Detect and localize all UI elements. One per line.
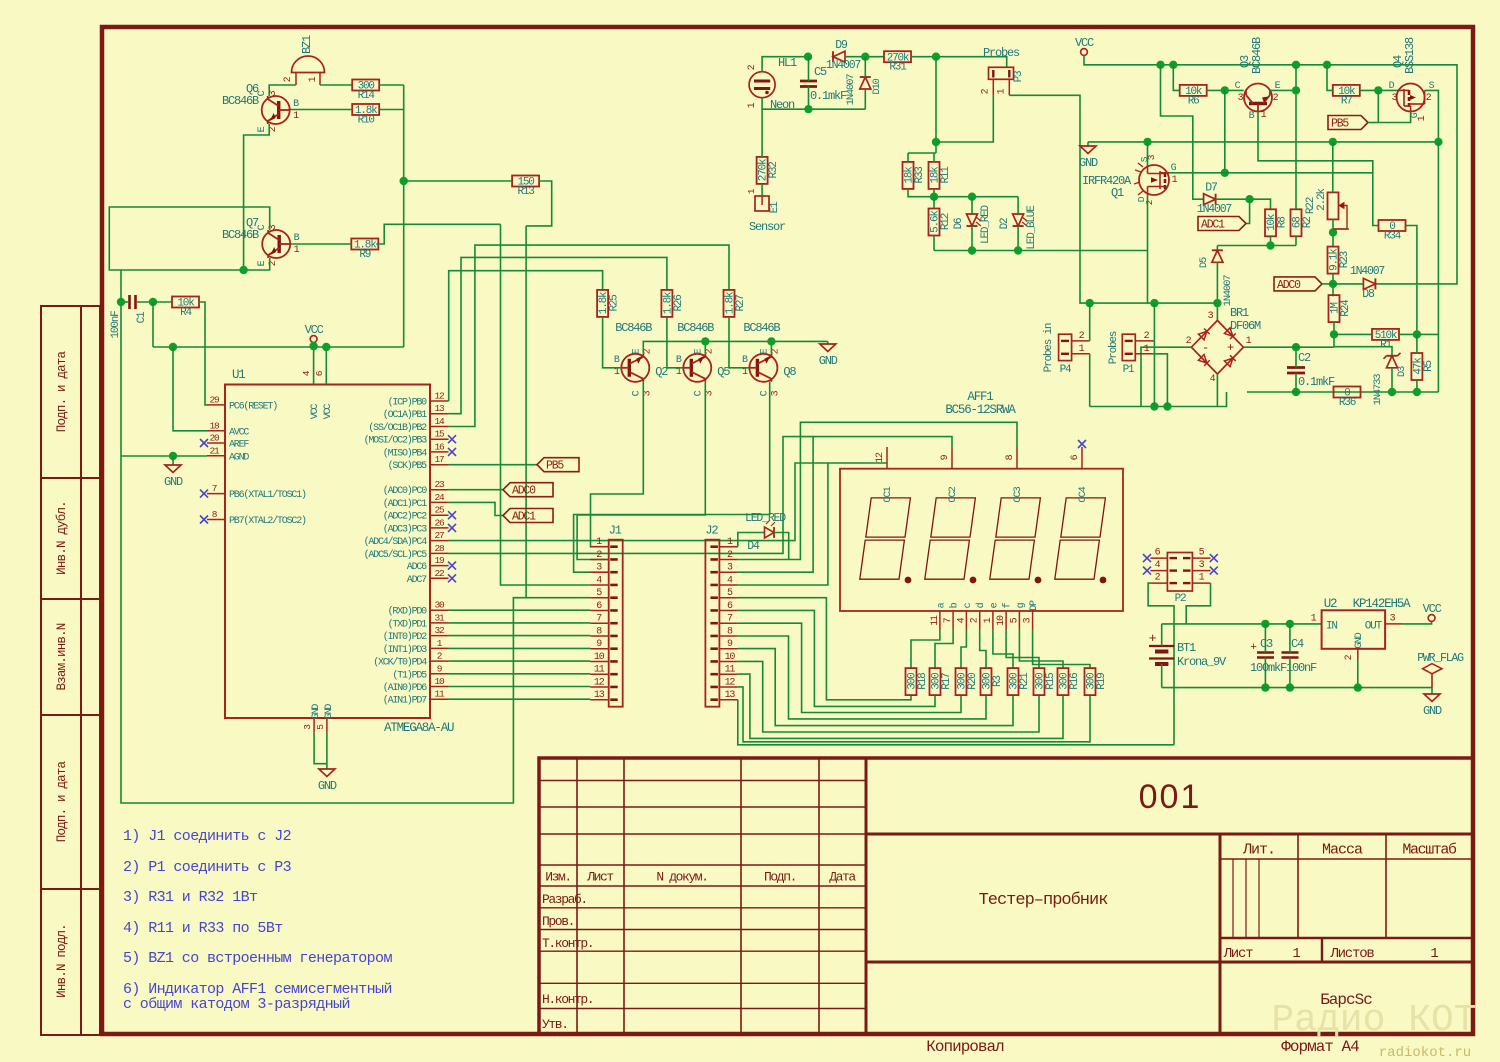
svg-text:N докум.: N докум. [656, 870, 707, 885]
svg-text:12: 12 [434, 391, 445, 402]
wire [137, 301, 172, 303]
no-connect AREF [200, 439, 208, 447]
global label ADC1 right [1198, 217, 1246, 231]
svg-text:R24: R24 [1340, 299, 1352, 317]
wire [738, 661, 1039, 732]
wire [501, 224, 591, 585]
resistor R1 [1372, 329, 1399, 352]
svg-text:R1: R1 [1380, 339, 1392, 351]
wire [313, 346, 315, 384]
connector P2 [1167, 553, 1192, 592]
svg-text:BC846B: BC846B [1250, 37, 1264, 74]
svg-text:C4: C4 [1291, 637, 1304, 651]
wire [738, 649, 1013, 726]
svg-text:HL1: HL1 [778, 56, 797, 70]
pin 7 PB6(XTAL1/TOSC1) [207, 493, 225, 495]
svg-text:Лист: Лист [586, 870, 613, 885]
resistor R3 [981, 668, 1005, 695]
svg-text:Дата: Дата [829, 870, 856, 885]
svg-text:11: 11 [725, 665, 736, 676]
no-connect [448, 448, 456, 456]
wire [313, 342, 315, 346]
resistor R14 [352, 80, 379, 103]
wire [1322, 283, 1333, 285]
junction [1330, 330, 1338, 338]
svg-text:R3: R3 [992, 676, 1004, 687]
resistor R31 [884, 51, 911, 73]
wire [1431, 688, 1433, 694]
svg-text:R26: R26 [673, 295, 685, 312]
svg-text:DP: DP [1029, 600, 1040, 611]
resistor R9 [351, 239, 378, 262]
power VCC at U2 [1428, 615, 1435, 622]
wire [526, 226, 590, 598]
svg-text:CC4: CC4 [1077, 486, 1089, 502]
wire [1373, 174, 1379, 225]
svg-text:U1: U1 [232, 368, 245, 382]
svg-text:Лит.: Лит. [1242, 842, 1275, 859]
wire [526, 181, 552, 226]
svg-text:10: 10 [725, 652, 736, 663]
svg-text:17: 17 [434, 454, 444, 465]
svg-text:Подп. и дата: Подп. и дата [55, 760, 69, 842]
wire [449, 647, 591, 649]
svg-text:Пров.: Пров. [542, 914, 574, 929]
svg-text:LED_BLUE: LED_BLUE [1026, 205, 1038, 250]
svg-text:20: 20 [209, 433, 220, 444]
svg-text:R7: R7 [1341, 95, 1352, 107]
wire [1295, 236, 1297, 245]
wire [1295, 65, 1297, 210]
resistor R21 [1008, 668, 1032, 695]
svg-text:1N4007: 1N4007 [1197, 203, 1232, 216]
svg-text:CC3: CC3 [1012, 486, 1024, 502]
svg-text:Тестер–пробник: Тестер–пробник [979, 891, 1109, 910]
wire [1295, 373, 1297, 392]
svg-text:(INT0)PD2: (INT0)PD2 [383, 631, 427, 643]
wire [449, 464, 537, 466]
svg-text:25: 25 [434, 505, 445, 516]
display AFF1 BC56-12SRWA [840, 469, 1123, 611]
potentiometer R22 [1328, 192, 1348, 232]
svg-text:VCC: VCC [1423, 602, 1442, 616]
svg-text:J1: J1 [609, 524, 622, 538]
svg-text:+: + [1227, 341, 1234, 355]
wire [667, 317, 683, 368]
pin 12 CC1 [886, 447, 888, 469]
svg-text:(XCK/T0)PD4: (XCK/T0)PD4 [373, 657, 427, 669]
wire [738, 700, 1174, 745]
svg-text:ADC0: ADC0 [512, 485, 536, 498]
wire [403, 85, 405, 347]
svg-text:VCC: VCC [323, 404, 334, 420]
resistor R18 [906, 668, 930, 695]
wire [1270, 236, 1272, 245]
svg-text:0.1mkF: 0.1mkF [810, 89, 847, 103]
junction [701, 337, 709, 345]
wire [1332, 274, 1334, 297]
svg-text:R13: R13 [517, 186, 534, 198]
wire [1437, 142, 1439, 392]
svg-text:IRFR420A: IRFR420A [1082, 174, 1132, 188]
wire [1378, 112, 1410, 123]
svg-text:Подп.: Подп. [764, 870, 796, 885]
junction [239, 266, 247, 274]
svg-text:23: 23 [434, 479, 445, 490]
svg-text:10: 10 [434, 676, 445, 687]
wire [574, 382, 770, 572]
wire [864, 57, 866, 77]
svg-text:P2: P2 [1175, 593, 1186, 605]
resistor R33 [903, 162, 927, 189]
wire [808, 87, 810, 110]
svg-text:Krona_9V: Krona_9V [1177, 655, 1227, 669]
capacitor C3 100mkF [1257, 653, 1274, 658]
wire [1270, 89, 1296, 91]
wire [1224, 90, 1226, 172]
no-connect P2 pin3 [1210, 567, 1218, 575]
svg-text:1: 1 [1292, 946, 1300, 962]
transistor Q3 [1244, 84, 1272, 112]
wire [1425, 90, 1439, 141]
svg-text:GND: GND [318, 779, 337, 793]
wire [449, 686, 591, 688]
resistor R16 [1058, 668, 1082, 695]
svg-text:18: 18 [209, 420, 220, 431]
junction [930, 193, 938, 201]
svg-text:Масштаб: Масштаб [1402, 842, 1457, 859]
svg-text:16: 16 [434, 441, 445, 452]
junction [1388, 388, 1396, 396]
svg-text:ADC0: ADC0 [1277, 279, 1301, 292]
wire [291, 243, 352, 245]
svg-text:BC846B: BC846B [222, 94, 259, 108]
wire [1019, 629, 1063, 668]
wire [643, 341, 828, 353]
svg-text:3) R31 и R32 1Вт: 3) R31 и R32 1Вт [123, 889, 258, 906]
wire [152, 302, 154, 347]
junction [169, 343, 177, 351]
svg-text:D6: D6 [953, 218, 965, 229]
wire [1247, 391, 1438, 393]
capacitor C2 [1287, 368, 1305, 374]
wire [934, 153, 936, 162]
resistor R32 [757, 157, 781, 184]
wire [120, 270, 122, 456]
transistor Q4 BSS138 [1397, 84, 1425, 112]
wire [449, 609, 591, 611]
wire [173, 347, 207, 431]
pin 14 (SS/OC1B)PB2 [430, 426, 449, 428]
pin 18 AVCC [207, 430, 225, 432]
wire [761, 109, 763, 157]
wire [269, 258, 271, 270]
svg-text:BC846B: BC846B [743, 321, 780, 335]
svg-text:LED_RED: LED_RED [980, 204, 992, 243]
svg-text:27: 27 [434, 530, 444, 541]
svg-text:11: 11 [930, 615, 941, 626]
svg-text:+: + [1250, 642, 1256, 654]
svg-text:R5: R5 [1423, 361, 1435, 372]
wire [774, 533, 789, 560]
pin 5 GND [326, 718, 328, 733]
svg-text:(ADC3)PC3: (ADC3)PC3 [383, 523, 427, 535]
svg-text:PB6(XTAL1/TOSC1): PB6(XTAL1/TOSC1) [229, 489, 306, 501]
svg-text:R12: R12 [940, 213, 952, 230]
svg-text:R18: R18 [917, 673, 929, 690]
junction [149, 298, 157, 306]
wire [1216, 374, 1218, 407]
power VCC right [1081, 49, 1088, 56]
svg-text:BSS138: BSS138 [1403, 37, 1417, 74]
wire [577, 382, 705, 560]
svg-text:Probes: Probes [1108, 331, 1120, 364]
wire [449, 489, 503, 491]
svg-text:R36: R36 [1339, 397, 1356, 409]
svg-text:D8: D8 [1362, 288, 1375, 301]
wire [1243, 346, 1334, 348]
svg-text:radiokot.ru: radiokot.ru [1379, 1045, 1471, 1061]
resistor R24 [1329, 295, 1353, 322]
pin 9 CC2 [951, 447, 953, 469]
wire [314, 733, 327, 764]
svg-text:R16: R16 [1069, 673, 1081, 690]
wire [1216, 262, 1218, 320]
junction [968, 193, 976, 201]
wire [1087, 142, 1089, 146]
svg-text:C3: C3 [1260, 637, 1273, 651]
svg-text:D3: D3 [1396, 366, 1408, 377]
wire [738, 636, 986, 719]
svg-text:ADC1: ADC1 [512, 511, 536, 524]
digit 3 [990, 498, 1041, 579]
wire [1162, 687, 1432, 689]
svg-text:Лист: Лист [1223, 946, 1254, 962]
junction [117, 298, 125, 306]
wire [961, 629, 966, 668]
wire [449, 673, 591, 675]
svg-text:PWR_FLAG: PWR_FLAG [1417, 652, 1464, 665]
pin 6 CC4 [1081, 447, 1083, 469]
wire [738, 610, 935, 706]
junction [1156, 61, 1164, 69]
wire [379, 109, 404, 111]
svg-text:(ADC5/SCL)PC5: (ADC5/SCL)PC5 [364, 549, 428, 561]
svg-text:1N4007: 1N4007 [826, 59, 861, 72]
svg-text:Радио КОТ: Радио КОТ [1271, 999, 1476, 1042]
wire [980, 629, 986, 668]
wire [1162, 623, 1322, 625]
svg-text:PB5: PB5 [546, 460, 564, 473]
junction [1150, 402, 1158, 410]
svg-text:R31: R31 [889, 62, 907, 74]
junction [1221, 169, 1229, 177]
wire [449, 437, 813, 554]
pin 32 (INT0)PD2 [430, 635, 449, 637]
svg-text:GND: GND [1423, 704, 1442, 718]
wire [993, 629, 1013, 668]
pin 19 ADC6 [430, 565, 449, 567]
wire [738, 463, 887, 585]
pin 25 (ADC2)PC2 [430, 514, 449, 516]
svg-text:BC846B: BC846B [615, 321, 652, 335]
svg-text:R34: R34 [1384, 231, 1402, 243]
wire [449, 245, 729, 426]
svg-text:001: 001 [1139, 778, 1202, 816]
wire [738, 623, 961, 712]
no-connect [448, 511, 456, 519]
svg-text:PB7(XTAL2/TOSC2): PB7(XTAL2/TOSC2) [229, 515, 306, 527]
wire [762, 57, 808, 72]
svg-text:13: 13 [434, 403, 445, 414]
wire [933, 189, 935, 197]
svg-text:P3: P3 [1013, 71, 1025, 82]
wire [449, 271, 603, 401]
no-connect [448, 574, 456, 582]
wire [907, 153, 909, 162]
resistor R13 [512, 176, 539, 199]
wire [1152, 354, 1167, 407]
wire [738, 598, 911, 700]
wire [1089, 303, 1091, 341]
svg-text:0.1mkF: 0.1mkF [1298, 375, 1335, 389]
resistor R11 [929, 162, 953, 189]
wire [1377, 90, 1379, 122]
junction [1413, 388, 1421, 396]
svg-text:(AIN0)PD6: (AIN0)PD6 [383, 682, 427, 694]
svg-text:R21: R21 [1019, 672, 1031, 690]
svg-text:1N4733: 1N4733 [1372, 374, 1384, 406]
wire [738, 687, 1090, 742]
svg-text:OUT: OUT [1365, 621, 1383, 633]
junction [1329, 228, 1337, 236]
junction [1014, 246, 1022, 254]
resistor R20 [956, 668, 980, 695]
pin 8 CC3 [1016, 447, 1018, 469]
junction [400, 177, 408, 185]
junction [322, 343, 330, 351]
wire [449, 622, 591, 624]
pin 5 segment g [1018, 611, 1020, 629]
svg-text:R11: R11 [940, 166, 952, 184]
svg-text:GND: GND [311, 704, 322, 720]
no-connect P2 pin5 [1210, 554, 1218, 562]
wire [1173, 65, 1179, 91]
svg-text:4) R11 и R33 по 5Вт: 4) R11 и R33 по 5Вт [123, 920, 283, 937]
svg-text:J2: J2 [705, 524, 718, 538]
pin 3 segment DP [1032, 611, 1034, 629]
svg-text:28: 28 [434, 543, 445, 554]
svg-text:AREF: AREF [229, 440, 249, 451]
junction [1329, 280, 1337, 288]
wire [934, 250, 1148, 252]
svg-text:Инв.N дубл.: Инв.N дубл. [55, 501, 69, 575]
wire [1216, 199, 1271, 209]
wire [935, 57, 937, 153]
svg-text:14: 14 [434, 416, 445, 427]
resistor R15 [1034, 668, 1058, 695]
svg-text:Подп. и дата: Подп. и дата [55, 350, 69, 432]
wire [908, 189, 1018, 197]
svg-text:R4: R4 [180, 307, 192, 319]
junction [804, 53, 812, 61]
svg-text:5) BZ1 со встроенным генератор: 5) BZ1 со встроенным генератором [123, 950, 392, 967]
svg-text:R33: R33 [914, 167, 926, 184]
svg-text:21: 21 [209, 445, 220, 456]
junction [169, 452, 177, 460]
svg-text:GND: GND [819, 354, 838, 368]
neon lamp HL1 [749, 72, 775, 98]
pin 7 segment b [952, 611, 954, 629]
transistor Q7 [262, 230, 291, 258]
wire [404, 180, 512, 182]
wire [1216, 246, 1218, 251]
svg-text:R20: R20 [967, 673, 979, 690]
svg-text:Q8: Q8 [783, 365, 796, 379]
capacitor C1 [130, 295, 136, 309]
wire [1186, 583, 1210, 624]
resistor R2 [1291, 209, 1315, 236]
wire [449, 698, 591, 700]
wire [449, 257, 667, 413]
wire [1090, 392, 1227, 407]
wire [911, 629, 940, 668]
wire [1033, 629, 1090, 668]
no-connect [448, 524, 456, 532]
wire [1009, 95, 1089, 303]
pin 1 (INT1)PD3 [430, 647, 449, 649]
svg-text:R10: R10 [358, 115, 375, 127]
svg-text:D4: D4 [747, 540, 760, 553]
svg-text:VCC: VCC [310, 404, 321, 420]
wire [122, 269, 270, 271]
wire [376, 224, 500, 244]
svg-text:KP142EH5A: KP142EH5A [1353, 597, 1411, 611]
junction [1286, 683, 1294, 691]
pin 21 AGND [207, 455, 225, 457]
pin 27 (ADC4/SDA)PC4 [430, 540, 449, 542]
connector P3 Probes [989, 67, 1014, 79]
wire [738, 437, 952, 573]
svg-text:(RXD)PD0: (RXD)PD0 [388, 606, 428, 618]
resistor R19 [1085, 668, 1109, 695]
transistor Q8 [749, 354, 778, 382]
junction [767, 337, 775, 345]
wire [1289, 624, 1291, 653]
diode D8 1N4007 [1363, 278, 1375, 289]
svg-text:R6: R6 [1188, 95, 1199, 107]
connector P4 Probes in [1059, 334, 1072, 360]
pin U2 out [1385, 623, 1402, 625]
junction [309, 342, 317, 350]
svg-text:R27: R27 [735, 295, 747, 312]
wire [908, 152, 934, 154]
wire [738, 533, 765, 547]
svg-text:(TXD)PD1: (TXD)PD1 [388, 618, 428, 630]
wire [1161, 664, 1163, 688]
junction [1169, 61, 1177, 69]
pin 20 AREF [207, 442, 225, 444]
wire [738, 422, 1017, 559]
wire [1153, 341, 1155, 407]
pin 1 segment e [992, 611, 994, 629]
pin 24 (ADC1)PC1 [430, 501, 449, 503]
svg-text:(ICP)PB0: (ICP)PB0 [388, 397, 428, 409]
junction [932, 138, 940, 146]
svg-text:GND: GND [1079, 156, 1098, 170]
svg-text:(T1)PD5: (T1)PD5 [392, 669, 427, 681]
svg-text:AFF1: AFF1 [967, 390, 993, 404]
